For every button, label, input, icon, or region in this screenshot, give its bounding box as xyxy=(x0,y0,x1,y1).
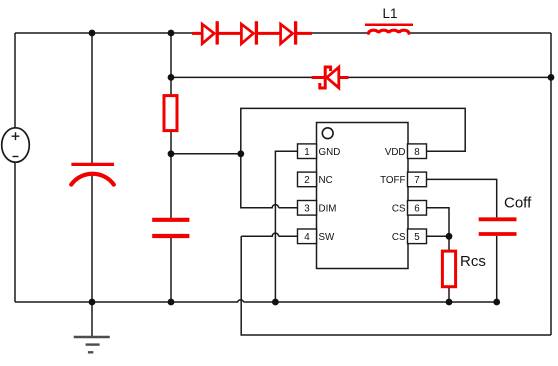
svg-text:DIM: DIM xyxy=(319,203,337,214)
capacitor C2 xyxy=(152,220,189,236)
wire left bus lower xyxy=(14,162,16,302)
svg-text:Coff: Coff xyxy=(504,195,532,212)
node top cap junction xyxy=(89,30,96,37)
capacitor input polarized xyxy=(71,164,114,184)
resistor Rcs xyxy=(442,251,455,287)
wire TOFF to Coff xyxy=(427,179,497,217)
diode D3 xyxy=(281,21,312,44)
svg-text:CS: CS xyxy=(392,203,406,214)
pin 6 box xyxy=(408,201,427,216)
wire resistor branch xyxy=(170,33,172,302)
svg-text:3: 3 xyxy=(304,203,310,214)
svg-text:6: 6 xyxy=(414,203,420,214)
wire node A horizontal xyxy=(171,153,241,155)
wire SW pin 4 with hop xyxy=(241,233,297,236)
svg-text:7: 7 xyxy=(414,175,419,186)
pin 8 box xyxy=(408,144,427,159)
wire bottom ground rail with hop over SW wire xyxy=(15,300,497,302)
pin 7 box xyxy=(408,172,427,187)
resistor R1 xyxy=(164,96,177,131)
svg-text:4: 4 xyxy=(304,232,310,243)
svg-text:TOFF: TOFF xyxy=(380,175,405,186)
node A left junction xyxy=(168,150,175,157)
wire Coff bottom xyxy=(496,236,498,302)
node ground rail GND bus junction xyxy=(272,299,279,306)
svg-text:GND: GND xyxy=(319,147,341,158)
pin 4 box xyxy=(298,229,317,244)
voltage source V1 xyxy=(2,128,30,162)
IC U1 body xyxy=(317,123,409,269)
wire VDD loop xyxy=(241,108,465,153)
IC U1 pin1 marker circle xyxy=(322,128,333,139)
wire input cap branch xyxy=(91,33,93,302)
svg-text:VDD: VDD xyxy=(385,147,406,158)
wire ground stem xyxy=(91,302,93,337)
svg-text:CS: CS xyxy=(392,232,406,243)
wire left bus upper xyxy=(14,33,16,128)
wire right bus xyxy=(550,33,552,335)
node CS sense junction xyxy=(446,233,453,240)
wire freewheel diode net xyxy=(171,76,551,78)
wire Rcs leads xyxy=(448,236,450,302)
svg-text:2: 2 xyxy=(304,175,309,186)
node ground rail resistor junction xyxy=(168,299,175,306)
svg-text:L1: L1 xyxy=(382,6,397,21)
node freewheel left junction xyxy=(168,74,175,81)
node ground rail Coff junction xyxy=(493,299,500,306)
schottky diode D4 xyxy=(312,67,349,88)
diode D1 xyxy=(192,21,241,44)
wire GND pin 1 bus xyxy=(275,151,297,302)
pin 1 box xyxy=(298,144,317,159)
svg-text:8: 8 xyxy=(414,147,420,158)
svg-text:NC: NC xyxy=(319,175,333,186)
svg-text:Rcs: Rcs xyxy=(460,253,486,270)
wire top rail xyxy=(15,32,551,34)
inductor L1 xyxy=(365,25,413,34)
diode D2 xyxy=(241,21,280,44)
node freewheel right junction xyxy=(548,74,555,81)
node ground rail cap junction xyxy=(89,299,96,306)
wire DIM pin 3 with hop xyxy=(241,154,298,208)
pin 2 box xyxy=(298,172,317,187)
wire bottom return to SW xyxy=(241,236,551,335)
node top resistor junction xyxy=(168,30,175,37)
svg-text:1: 1 xyxy=(304,147,309,158)
pin 3 box xyxy=(298,201,317,216)
node ground rail Rcs junction xyxy=(446,299,453,306)
svg-text:5: 5 xyxy=(414,232,420,243)
pin 5 box xyxy=(408,229,427,244)
ground xyxy=(74,337,110,352)
svg-text:SW: SW xyxy=(319,232,336,243)
capacitor Coff xyxy=(479,219,517,234)
wire CS pin 6 xyxy=(427,208,450,237)
node A right junction xyxy=(237,150,244,157)
wire CS pin 5 xyxy=(427,235,450,237)
